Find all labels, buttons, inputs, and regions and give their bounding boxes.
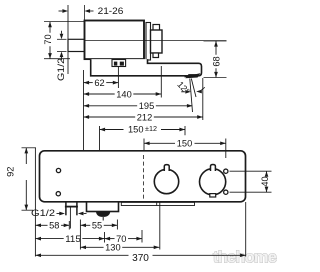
back edge extension line <box>84 5 86 21</box>
svg-text:62: 62 <box>94 78 104 89</box>
extension line x118 (62) <box>117 67 119 88</box>
left knob <box>154 165 178 194</box>
svg-text:130: 130 <box>105 243 121 254</box>
cover plate strip <box>121 202 194 205</box>
pipe centerline <box>85 40 227 42</box>
dimension 370 <box>35 253 245 264</box>
dimension 150 <box>144 139 226 159</box>
mixer body (bottom view) <box>40 151 246 202</box>
screw hole 2 <box>56 192 60 196</box>
right knob <box>200 165 226 198</box>
left extension line (bottom view) <box>34 148 36 257</box>
svg-text:70: 70 <box>43 34 54 44</box>
extension line x161 (140) <box>160 66 162 98</box>
dimension 115 <box>35 234 104 245</box>
dimension 195 <box>84 101 193 112</box>
dimension 58 <box>35 221 69 232</box>
right extension line (bottom view) <box>245 202 247 257</box>
svg-text:12°: 12° <box>175 79 191 96</box>
svg-text:±12: ±12 <box>145 126 157 133</box>
extension line x104.5 <box>104 232 106 243</box>
watermark <box>213 249 277 267</box>
left reference extension line <box>83 70 85 151</box>
valve detail <box>112 60 126 67</box>
svg-text:115: 115 <box>65 234 81 245</box>
nipple dimension arrows <box>57 31 67 60</box>
dimension 130 <box>80 243 159 254</box>
screw hole 3 <box>224 169 228 173</box>
dimension 70 (bottom view) <box>105 234 143 245</box>
dimension 55 <box>80 221 117 232</box>
extension line x69 <box>68 221 70 230</box>
svg-text:370: 370 <box>132 253 149 264</box>
spout outlet lip <box>185 74 201 78</box>
spout port (bottom view) <box>87 202 119 221</box>
dimension 150 +/-12 <box>100 125 186 151</box>
G1/2 port (bottom view) <box>65 202 78 216</box>
svg-text:21-26: 21-26 <box>98 6 124 17</box>
G1/2 nipple <box>68 39 85 51</box>
dimension 21-26 <box>59 6 124 17</box>
spout arm (side view) <box>91 59 202 76</box>
dimension 62 <box>84 78 119 89</box>
svg-text:58: 58 <box>49 221 59 232</box>
label G1/2 (bottom view) <box>31 208 87 219</box>
svg-text:150: 150 <box>177 139 193 150</box>
svg-text:212: 212 <box>137 112 153 123</box>
extension line x203 (212) <box>202 78 204 120</box>
svg-text:195: 195 <box>139 101 155 112</box>
svg-text:55: 55 <box>92 221 102 232</box>
label G1/2 (side view) <box>56 58 67 81</box>
svg-text:G1/2: G1/2 <box>31 208 55 219</box>
svg-text:68: 68 <box>211 56 222 66</box>
screw hole 4 <box>224 190 228 194</box>
extension line x80.4 <box>79 220 81 250</box>
dimension 70 <box>43 22 54 59</box>
mixer body (side view) <box>85 21 145 60</box>
extension line x117.4 <box>116 220 118 230</box>
dimension 140 <box>84 89 162 100</box>
extension line x159.8 <box>159 202 161 250</box>
extension line x142 <box>141 230 143 243</box>
dimension 92 <box>6 148 37 210</box>
svg-text:40: 40 <box>260 176 271 186</box>
side-view body top extension line <box>44 21 84 23</box>
svg-text:150: 150 <box>128 125 144 136</box>
screw hole 1 <box>56 168 60 172</box>
svg-text:92: 92 <box>6 167 17 177</box>
dimension 12 degrees <box>175 79 205 113</box>
port centerline <box>69 208 71 229</box>
spout centerline (dashed) <box>143 155 145 201</box>
wall reference line <box>67 5 69 74</box>
svg-text:140: 140 <box>116 89 132 100</box>
dimension 212 <box>84 112 203 123</box>
svg-text:thehome: thehome <box>213 249 277 267</box>
knob (side view) <box>151 25 163 58</box>
svg-text:G1/2: G1/2 <box>56 58 67 81</box>
escutcheon plate (side view) <box>146 23 151 61</box>
side-view body bottom extension line <box>44 58 70 60</box>
dimension 68 <box>204 41 227 78</box>
dimension 40 <box>230 171 272 192</box>
